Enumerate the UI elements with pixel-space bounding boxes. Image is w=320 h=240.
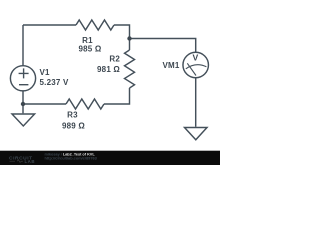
svg-text:981 Ω: 981 Ω <box>97 65 120 74</box>
ground <box>12 114 35 126</box>
svg-text:989 Ω: 989 Ω <box>62 122 85 131</box>
CircuitLab logo <box>9 155 35 164</box>
wire: node right to VM1 corner and down to VM1 top <box>130 39 196 53</box>
wire: VM1 bottom down to right ground <box>195 78 197 127</box>
voltmeter VM1 <box>183 52 209 78</box>
svg-text:V1: V1 <box>40 68 51 77</box>
resistor R1 <box>76 20 114 30</box>
wire: V1 bottom down through node to left ground <box>22 91 24 113</box>
voltage source V1 <box>10 66 35 91</box>
svg-text:R1: R1 <box>82 36 93 45</box>
svg-text:LAB: LAB <box>25 159 36 164</box>
svg-text:5.237 V: 5.237 V <box>40 78 69 87</box>
resistor R3 <box>66 99 104 109</box>
watermark bar <box>0 151 220 165</box>
svg-text:985 Ω: 985 Ω <box>79 45 102 54</box>
wire: R2 bottom down and left to R3 <box>104 88 130 104</box>
resistor R2 <box>125 50 135 88</box>
ground <box>185 128 208 140</box>
node B junction dot <box>21 102 25 106</box>
svg-text:V: V <box>193 53 199 63</box>
svg-text:R2: R2 <box>109 55 120 64</box>
wire: R1 to top-right corner down into node <box>114 25 130 39</box>
wire: bottom-left node right to R3 <box>23 103 66 105</box>
wire: top horizontal from corner to R1 <box>23 24 76 26</box>
node A junction dot <box>127 36 131 40</box>
svg-text:http://circuitlab.com/c/89763: http://circuitlab.com/c/89763 <box>45 155 98 160</box>
wire: node down to R2 <box>129 39 131 51</box>
svg-text:R3: R3 <box>67 111 78 120</box>
wire: left vertical from top corner down to V1 top <box>22 25 24 66</box>
svg-text:VM1: VM1 <box>162 61 179 70</box>
